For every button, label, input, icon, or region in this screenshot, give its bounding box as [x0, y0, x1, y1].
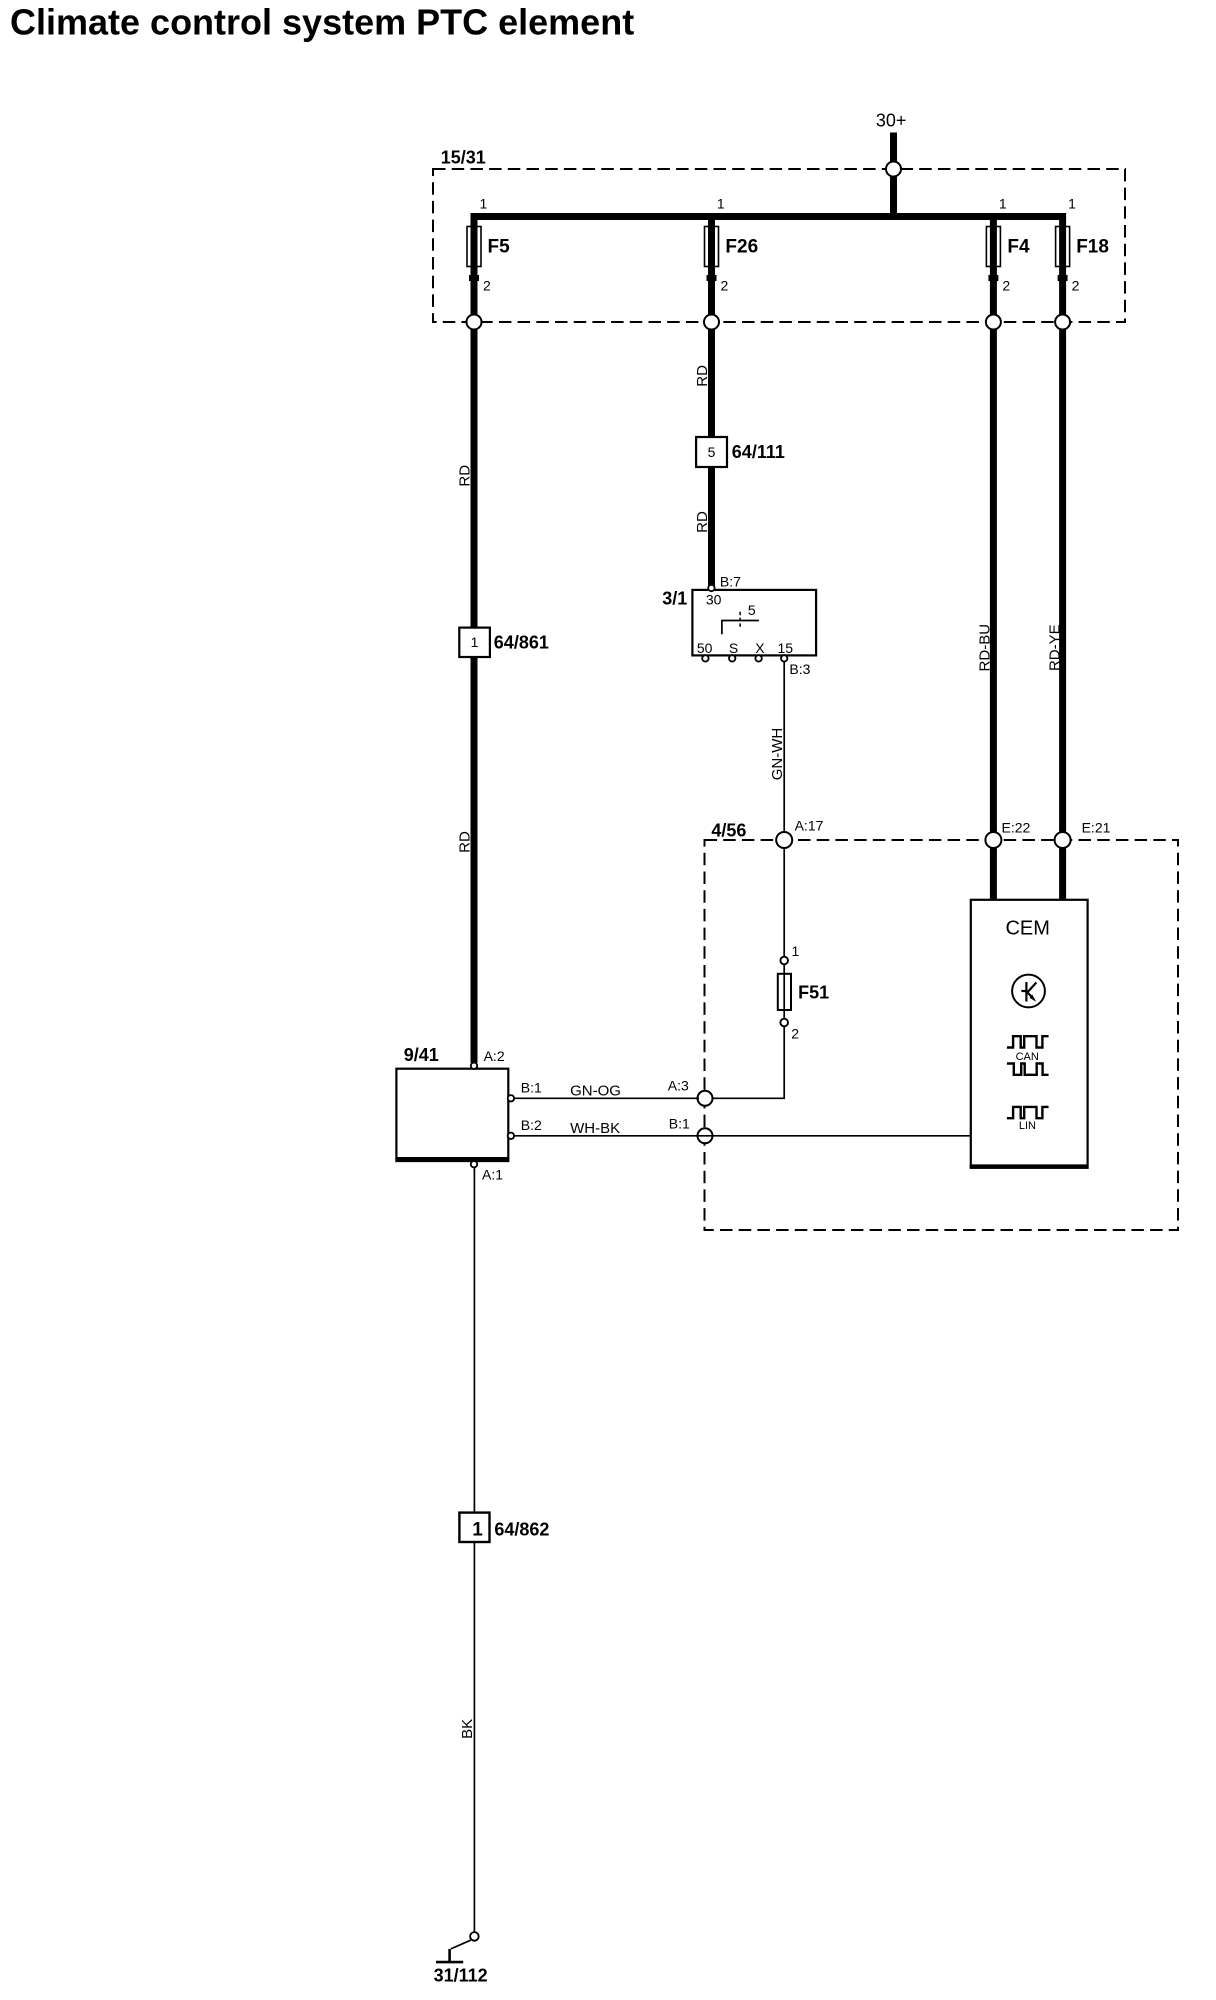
- svg-text:3/1: 3/1: [662, 588, 687, 608]
- connector circle A:3: [698, 1091, 713, 1106]
- svg-text:4/56: 4/56: [711, 820, 746, 840]
- connector circle F18:2 at box edge: [1055, 315, 1070, 330]
- wire F5 column (RD): [471, 213, 478, 1063]
- fuse F51 pin 1 circle: [780, 957, 788, 965]
- svg-text:50: 50: [697, 640, 713, 656]
- connector 64/862 square: [459, 1513, 489, 1542]
- connector circle F4:2 at box edge: [986, 315, 1001, 330]
- wire F18 column (RD-YE): [1059, 213, 1066, 901]
- CEM dashed box 4/56: [705, 840, 1179, 1230]
- LIN symbol wave: [1007, 1107, 1049, 1118]
- svg-text:RD-YE: RD-YE: [1046, 624, 1063, 671]
- svg-text:RD: RD: [694, 365, 711, 387]
- svg-text:BK: BK: [459, 1719, 476, 1739]
- pin B:1 circle on 9/41: [508, 1095, 514, 1101]
- connector 64/111 square: [696, 437, 727, 467]
- svg-text:A:17: A:17: [795, 818, 824, 834]
- K-line symbol strokes: [1025, 982, 1027, 1002]
- pin 50 circle: [702, 655, 708, 661]
- svg-text:CEM: CEM: [1005, 918, 1049, 940]
- ground lead vertical: [448, 1949, 451, 1962]
- fuse box 15/31 dashed outline: [433, 169, 1125, 322]
- svg-text:X: X: [755, 640, 765, 656]
- svg-text:F18: F18: [1076, 237, 1109, 258]
- pin A:2 circle: [471, 1063, 477, 1069]
- pin S circle: [729, 655, 735, 661]
- svg-text:1: 1: [480, 196, 488, 212]
- svg-text:LIN: LIN: [1019, 1120, 1036, 1132]
- svg-text:1: 1: [792, 943, 800, 959]
- svg-text:2: 2: [721, 278, 729, 294]
- svg-text:15/31: 15/31: [441, 148, 486, 168]
- svg-text:B:7: B:7: [720, 573, 741, 589]
- ground bar: [436, 1961, 463, 1964]
- connector circle 30+ at box edge: [886, 162, 901, 177]
- svg-text:B:2: B:2: [521, 1117, 542, 1133]
- svg-text:9/41: 9/41: [404, 1045, 439, 1065]
- svg-text:RD-BU: RD-BU: [977, 624, 994, 672]
- svg-text:A:1: A:1: [482, 1167, 503, 1183]
- svg-text:E:21: E:21: [1082, 820, 1111, 836]
- fuse F26 symbol: [705, 227, 719, 267]
- svg-text:5: 5: [708, 444, 716, 460]
- svg-text:RD: RD: [694, 511, 711, 533]
- pin 15 circle: [781, 655, 787, 661]
- connector circle B:1 on 4/56 edge: [698, 1128, 713, 1143]
- svg-text:1: 1: [999, 196, 1007, 212]
- svg-text:A:3: A:3: [668, 1078, 689, 1094]
- svg-text:F51: F51: [798, 983, 829, 1003]
- pin X circle: [755, 655, 761, 661]
- fuse F4 symbol: [986, 227, 1000, 267]
- svg-text:F5: F5: [488, 237, 511, 258]
- wire 30+ feed: [890, 133, 897, 221]
- svg-text:2: 2: [483, 278, 491, 294]
- ground lead diagonal: [451, 1940, 471, 1949]
- pin 2 marker F26: [707, 275, 717, 281]
- pin A:1 circle: [471, 1161, 477, 1167]
- fuse F5 symbol: [467, 227, 481, 267]
- CEM control module box: [971, 900, 1088, 1168]
- pin 2 marker F4: [988, 275, 998, 281]
- svg-text:1: 1: [1068, 196, 1076, 212]
- svg-text:30: 30: [706, 591, 722, 607]
- svg-text:15: 15: [778, 640, 794, 656]
- svg-text:64/861: 64/861: [494, 633, 549, 653]
- connector 64/861 square: [459, 628, 490, 657]
- svg-text:2: 2: [1072, 278, 1080, 294]
- PTC element 9/41 bottom edge: [395, 1158, 509, 1162]
- fuse F51 pin 2 circle: [780, 1019, 788, 1027]
- svg-text:2: 2: [791, 1026, 799, 1042]
- connector circle E:21: [1055, 832, 1071, 848]
- svg-text:F4: F4: [1007, 237, 1030, 258]
- svg-text:B:3: B:3: [789, 661, 810, 677]
- svg-text:B:1: B:1: [521, 1079, 542, 1095]
- svg-text:RD: RD: [457, 465, 474, 487]
- switch contact symbol: [722, 621, 759, 635]
- svg-text:Climate control system PTC ele: Climate control system PTC element: [10, 2, 634, 43]
- connector circle F26:2 at box edge: [704, 315, 719, 330]
- pin 2 marker F18: [1058, 275, 1068, 281]
- connector circle F5:2 at box edge: [467, 315, 482, 330]
- CAN symbol upper wave: [1007, 1036, 1049, 1047]
- svg-text:E:22: E:22: [1002, 820, 1031, 836]
- wire WH-BK from B:2 to B:1 and CEM: [514, 1135, 971, 1137]
- K-line symbol circle: [1012, 975, 1045, 1008]
- switch position dashed line: [739, 612, 741, 629]
- fuse F51 symbol: [778, 974, 791, 1010]
- svg-text:GN-OG: GN-OG: [570, 1083, 621, 1100]
- ground terminal circle: [470, 1932, 479, 1941]
- wire GN-OG from B:1 to A:3: [514, 1097, 699, 1099]
- pin B:7 circle: [708, 585, 714, 591]
- connector circle E:22: [985, 832, 1001, 848]
- wire F4 column (RD-BU): [990, 213, 997, 901]
- pin 2 marker F5: [469, 275, 479, 281]
- svg-text:1: 1: [471, 634, 479, 650]
- ignition switch 3/1 box: [692, 590, 816, 656]
- svg-text:CAN: CAN: [1016, 1051, 1039, 1063]
- svg-text:1: 1: [472, 1519, 483, 1540]
- svg-text:S: S: [729, 640, 738, 656]
- svg-text:5: 5: [748, 602, 756, 618]
- connector circle A:17: [776, 832, 792, 848]
- svg-text:30+: 30+: [876, 111, 907, 131]
- fuse F18 symbol: [1056, 227, 1070, 267]
- svg-text:GN-WH: GN-WH: [769, 728, 786, 781]
- CEM bottom edge: [970, 1164, 1088, 1168]
- CAN symbol lower wave: [1007, 1064, 1049, 1075]
- pin B:2 circle on 9/41: [508, 1133, 514, 1139]
- PTC element 9/41 box: [396, 1069, 508, 1158]
- svg-text:B:1: B:1: [669, 1116, 690, 1132]
- svg-text:RD: RD: [457, 831, 474, 853]
- svg-text:F26: F26: [725, 237, 758, 258]
- svg-text:64/862: 64/862: [494, 1519, 549, 1539]
- wire F26 column upper (RD): [708, 213, 715, 586]
- wire BK from A:1 to ground: [473, 1167, 475, 1932]
- svg-text:31/112: 31/112: [434, 1966, 488, 1986]
- bus wire from fuse 1 pins: [471, 213, 1067, 220]
- svg-text:2: 2: [1002, 278, 1010, 294]
- svg-text:A:2: A:2: [484, 1048, 505, 1064]
- svg-text:64/111: 64/111: [732, 442, 785, 462]
- svg-text:WH-BK: WH-BK: [570, 1120, 620, 1137]
- wire GN-WH from pin 15 to F51 and A:3: [705, 661, 784, 1098]
- svg-text:1: 1: [717, 196, 725, 212]
